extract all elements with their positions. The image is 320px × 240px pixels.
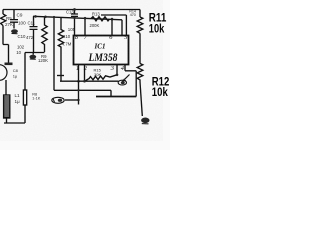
node dot pin1/W1 [77,80,80,83]
resistor R10 [58,17,63,81]
wire W2 [60,80,119,82]
wire pin4 [125,65,136,71]
svg-text:10k: 10k [149,21,165,35]
svg-text:10k: 10k [152,85,168,99]
resistor R13 [91,17,110,21]
node dot C11/H2 [34,15,37,18]
wire to plug [65,99,79,101]
node dot V1/H2 [53,16,55,18]
plug jack symbol [52,97,64,103]
ground G5 [141,118,149,124]
capacitor C9 [10,10,18,29]
wire pin6 [111,19,113,35]
wire right rail mid [139,33,141,63]
node dot Vc/W3 [77,89,79,91]
node dot pin2/W2 [83,80,86,83]
wire right rail top [139,10,141,18]
wire bottom left [4,122,25,124]
resistor R5 [1,14,6,26]
wire W3 [54,89,111,91]
wire jog to mic [3,45,9,63]
wire H2 [33,16,122,20]
wire pin1 [78,65,80,82]
wire mic to coil [5,80,7,95]
node dot pin3 [116,74,119,77]
wire right riser [135,71,137,97]
resistor R12 [137,64,143,83]
capacitor C13 [71,10,78,36]
wire W1 [57,75,64,77]
microphone top plate [5,63,13,66]
wire W3 corner down [110,90,112,96]
diode arrow symbol [118,75,129,86]
wire pin2 [84,65,86,82]
resistor R9 [42,17,47,52]
wire pin7 [84,18,86,35]
node dot C13/H2 [73,17,75,19]
resistor R15 [85,75,118,81]
node dot on H1 [73,8,76,11]
wire pin3 [116,65,118,75]
scan noise overlay [0,0,1,1]
node dot Vc/plug stub [77,99,79,101]
resistor R8 box [23,90,26,105]
wire right rail bottom [140,82,142,116]
wire pin5 [121,20,123,36]
wire R8 bottom [24,105,26,123]
labels group [5,9,136,104]
wire Vc [78,81,80,104]
wire top rail H1 [3,9,140,11]
node dot pin7/H2 [84,17,87,20]
wire Wa nested [101,15,126,36]
wire W4 bottom [96,96,136,98]
capacitor C11 [25,16,45,55]
wire left rail upper [2,10,4,15]
ground G1 [11,29,18,34]
node dot R13 right [111,18,114,21]
wire left rail mid [2,26,4,45]
ground G2 [29,55,36,60]
resistor R11 [137,17,143,33]
microphone BM circle [0,65,7,81]
wire V1 [53,17,55,90]
inductor L1 coil [4,95,10,118]
op-amp IC1 box [74,36,129,65]
wire coil to bottom [6,118,8,123]
wire R8 top [24,53,26,91]
node dot R9/H2 [44,15,47,18]
